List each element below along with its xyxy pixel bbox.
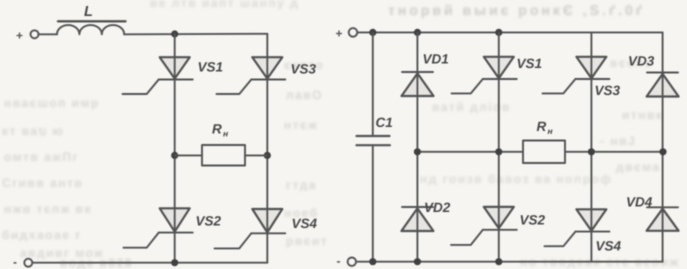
svg-text:R: R	[537, 119, 547, 134]
node junction bottom left-branch	[171, 259, 178, 266]
wire middle row right segment	[565, 151, 664, 153]
node junction bottom C1 branch	[369, 258, 376, 265]
wire VD3/VD4 branch vertical	[662, 32, 664, 261]
diode VD4	[626, 195, 679, 231]
thyristor VS1	[123, 57, 224, 94]
wire VS1/VS2 branch vertical	[498, 32, 500, 261]
capacitor C1	[357, 32, 393, 261]
diode VD1	[402, 52, 449, 97]
thyristor VS2 (right)	[451, 207, 546, 245]
svg-text:VS4: VS4	[292, 216, 318, 231]
wire left branch A vertical	[174, 34, 176, 263]
node junction middle VD1 branch	[414, 148, 421, 155]
resistor Rn (right circuit)	[523, 119, 565, 163]
svg-text:н: н	[548, 126, 553, 136]
svg-text:VS3: VS3	[595, 83, 621, 98]
wire terminal to coil	[39, 33, 58, 35]
minus terminal (right circuit)	[337, 254, 356, 268]
node junction bottom VS2 branch	[495, 258, 502, 265]
plus terminal (right circuit)	[336, 27, 358, 41]
svg-text:VD4: VD4	[626, 195, 653, 210]
thyristor VS4 (right)	[545, 209, 622, 253]
diode VD2	[401, 200, 450, 231]
wire coil to top-right corner	[124, 33, 267, 36]
svg-text:R: R	[212, 122, 222, 137]
thyristor VS3 (right)	[543, 57, 621, 98]
wire VS3/VS4 branch vertical	[590, 32, 592, 261]
svg-text:VS4: VS4	[596, 239, 622, 254]
node junction top VS1 branch	[495, 29, 502, 36]
node junction middle VS3 branch	[588, 148, 595, 155]
diode VD3	[628, 54, 679, 97]
svg-text:+: +	[336, 27, 343, 41]
wire R row right segment	[245, 154, 267, 156]
plus terminal (left circuit)	[16, 29, 39, 43]
svg-text:VS1: VS1	[198, 60, 224, 75]
wire middle row left segment	[417, 151, 523, 153]
minus terminal (left circuit)	[13, 255, 32, 269]
svg-text:VS2: VS2	[520, 213, 546, 228]
svg-text:н: н	[223, 129, 228, 139]
node junction top left-branch	[171, 30, 178, 37]
svg-text:VD3: VD3	[628, 54, 655, 69]
svg-text:VS2: VS2	[196, 214, 222, 229]
svg-text:VS1: VS1	[517, 56, 543, 71]
wire right branch B vertical	[266, 34, 268, 263]
wire VD1/VD2 branch vertical	[416, 32, 418, 261]
node junction middle VS1 branch	[495, 148, 502, 155]
node junction middle VD3 branch	[659, 148, 666, 155]
wire bottom (left circuit)	[32, 262, 267, 264]
svg-text:+: +	[16, 29, 23, 43]
svg-text:C1: C1	[376, 115, 393, 130]
thyristor VS2	[124, 208, 222, 247]
node junction top C1 branch	[369, 29, 376, 36]
svg-text:L: L	[84, 4, 93, 20]
faint bleed-through background text	[388, 2, 645, 18]
resistor Rn (left circuit)	[202, 122, 245, 166]
wire bottom (right circuit)	[356, 261, 663, 263]
thyristor VS1 (right)	[452, 56, 543, 93]
node junction bottom VD2 branch	[414, 258, 421, 265]
thyristor VS3	[217, 57, 317, 94]
svg-text:VS3: VS3	[291, 62, 317, 77]
svg-text:-: -	[337, 254, 341, 268]
inductor L	[57, 4, 126, 34]
node junction R row right	[264, 152, 271, 159]
node junction R row left	[171, 152, 178, 159]
svg-text:-: -	[13, 255, 17, 269]
svg-text:VD1: VD1	[423, 52, 449, 67]
wire top (right circuit)	[357, 31, 662, 33]
wire R row left segment	[175, 154, 202, 156]
node junction top VD1 branch	[414, 29, 421, 36]
thyristor VS4	[215, 209, 318, 248]
svg-text:VD2: VD2	[424, 200, 451, 215]
